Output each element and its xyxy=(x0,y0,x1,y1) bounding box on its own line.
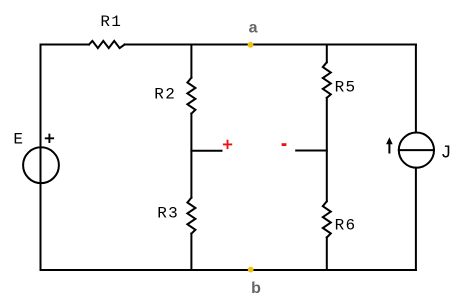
svg-text:R6: R6 xyxy=(335,217,357,235)
svg-text:R1: R1 xyxy=(100,13,122,31)
svg-text:R5: R5 xyxy=(335,79,357,97)
svg-text:E: E xyxy=(13,131,24,149)
svg-text:a: a xyxy=(249,20,258,37)
svg-text:J: J xyxy=(441,143,453,163)
svg-text:R2: R2 xyxy=(154,85,176,103)
svg-text:b: b xyxy=(251,280,261,297)
svg-text:R3: R3 xyxy=(157,205,179,223)
